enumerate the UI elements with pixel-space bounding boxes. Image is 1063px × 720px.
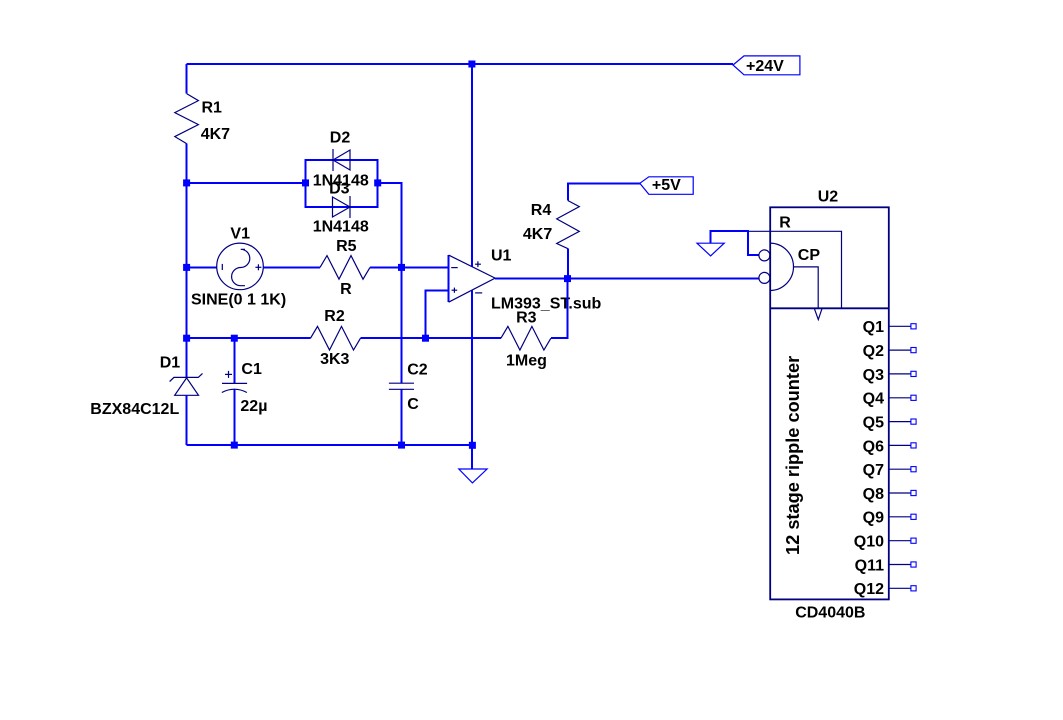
wire R2 to R3 — [361, 337, 501, 339]
pin Q2 stub — [889, 349, 911, 351]
resistor R3 — [501, 309, 551, 369]
svg-text:Q4: Q4 — [863, 391, 884, 408]
wire R5 to opamp minus input — [370, 266, 449, 268]
resistor R4 — [523, 201, 579, 249]
wire bottom row R2 line — [187, 337, 311, 339]
pin Q4 stub — [889, 397, 911, 399]
ground U2 reset — [697, 231, 759, 256]
svg-text:Q10: Q10 — [854, 534, 884, 551]
svg-text:D2: D2 — [330, 130, 351, 147]
pin Q7 stub — [889, 468, 911, 470]
flag +5V — [640, 177, 693, 195]
wire opamp V- to ground — [471, 290, 473, 445]
U2 R bubble — [759, 250, 770, 261]
pin Q12 terminal square — [911, 586, 916, 591]
svg-text:Q11: Q11 — [855, 557, 884, 574]
pin Q10 terminal square — [911, 538, 916, 543]
pin Q10 stub — [889, 540, 911, 542]
node junction top rail — [468, 61, 475, 68]
svg-text:C1: C1 — [241, 361, 262, 378]
svg-text:C2: C2 — [407, 361, 428, 378]
ground main — [459, 445, 487, 483]
wire R3 to output riser — [551, 279, 568, 339]
wire plus input — [426, 290, 449, 338]
node junction diode box left — [302, 179, 309, 186]
node junction inv input — [398, 264, 405, 271]
voltage source V1 — [191, 225, 286, 308]
svg-text:4K7: 4K7 — [523, 226, 552, 243]
svg-text:Q7: Q7 — [863, 462, 884, 479]
U2 CP edge arrow — [815, 309, 822, 320]
svg-text:R2: R2 — [324, 308, 345, 325]
svg-text:D1: D1 — [160, 355, 181, 372]
svg-text:R4: R4 — [531, 202, 552, 219]
pin Q9 terminal square — [911, 514, 916, 519]
node junction C1 bottom — [231, 442, 238, 449]
svg-text:V1: V1 — [230, 225, 250, 242]
wire diode box loop — [306, 160, 378, 207]
svg-text:1Meg: 1Meg — [506, 353, 547, 370]
wire V1 to R5 — [263, 266, 320, 268]
resistor R1 — [175, 94, 230, 144]
svg-text:+24V: +24V — [746, 58, 784, 75]
node junction left/V1 — [183, 264, 190, 271]
resistor R2 — [311, 308, 361, 368]
pin Q2 terminal square — [911, 348, 916, 353]
wire opamp output to U2 CP — [495, 278, 759, 280]
svg-text:SINE(0 1 1K): SINE(0 1 1K) — [191, 292, 286, 309]
node junction output/R4 — [564, 275, 571, 282]
U2 CP bubble — [759, 272, 770, 283]
node junction C1 top — [231, 335, 238, 342]
capacitor C1 — [222, 338, 268, 445]
wire to diode box — [187, 182, 306, 184]
pin Q6 stub — [889, 444, 911, 446]
wire +5V to R4 — [568, 183, 640, 200]
svg-text:Q12: Q12 — [854, 581, 884, 598]
wire V1 left lead — [187, 266, 217, 268]
U2 CP internal line — [794, 267, 819, 308]
svg-text:R: R — [340, 281, 352, 298]
pin Q6 terminal square — [911, 443, 916, 448]
node junction D1 top — [183, 335, 190, 342]
op-amp U1 — [449, 248, 602, 313]
pin Q12 stub — [889, 587, 911, 589]
svg-text:CD4040B: CD4040B — [795, 605, 865, 622]
U2 CP semicircle — [770, 243, 794, 290]
svg-text:12 stage ripple counter: 12 stage ripple counter — [783, 356, 803, 555]
wire bottom ground row — [187, 444, 472, 446]
svg-text:R: R — [779, 215, 791, 232]
svg-text:BZX84C12L: BZX84C12L — [90, 401, 179, 418]
wire R1 top lead — [186, 64, 188, 94]
svg-text:Q8: Q8 — [863, 486, 884, 503]
svg-text:Q6: Q6 — [863, 438, 884, 455]
capacitor C2 — [389, 361, 428, 445]
pin Q5 terminal square — [911, 419, 916, 424]
wire top +24V rail — [187, 63, 733, 65]
pin Q4 terminal square — [911, 395, 916, 400]
pin Q8 stub — [889, 492, 911, 494]
svg-text:R1: R1 — [202, 99, 223, 116]
svg-text:Q5: Q5 — [863, 415, 884, 432]
node junction left rail / diode box wire — [183, 179, 190, 186]
svg-text:Q1: Q1 — [863, 319, 884, 336]
pin Q3 stub — [889, 373, 911, 375]
wire diodebox to vertical — [378, 183, 402, 383]
U2 internal R line — [749, 231, 842, 308]
diode D2 — [313, 130, 369, 190]
node junction C2 bottom — [398, 442, 405, 449]
node junction diodebox right — [374, 179, 381, 186]
svg-text:1N4148: 1N4148 — [313, 218, 369, 235]
diode D3 — [313, 181, 369, 236]
zener diode D1 — [90, 338, 202, 445]
pin Q7 terminal square — [911, 467, 916, 472]
node junction plus riser — [422, 335, 429, 342]
wire R4 bottom lead — [567, 249, 569, 279]
svg-text:3K3: 3K3 — [320, 351, 349, 368]
svg-text:Q9: Q9 — [863, 510, 884, 527]
svg-text:Q2: Q2 — [863, 343, 884, 360]
wire main vertical +24 to opamp V+ — [471, 64, 473, 267]
pin Q8 terminal square — [911, 490, 916, 495]
svg-text:U2: U2 — [818, 189, 839, 206]
pin Q11 stub — [889, 564, 911, 566]
pin Q5 stub — [889, 421, 911, 423]
svg-text:4K7: 4K7 — [201, 126, 230, 143]
svg-text:+5V: +5V — [652, 177, 681, 194]
resistor R5 — [320, 238, 370, 298]
svg-text:CP: CP — [798, 247, 821, 264]
svg-text:C: C — [407, 396, 419, 413]
pin Q3 terminal square — [911, 371, 916, 376]
pin Q11 terminal square — [911, 562, 916, 567]
svg-text:D3: D3 — [329, 181, 350, 198]
IC U2 counter box — [770, 189, 889, 622]
svg-text:Q3: Q3 — [863, 367, 884, 384]
svg-text:22µ: 22µ — [240, 398, 267, 415]
pin Q9 stub — [889, 516, 911, 518]
svg-text:R3: R3 — [516, 309, 537, 326]
svg-text:R5: R5 — [336, 238, 357, 255]
pin Q1 terminal square — [911, 324, 916, 329]
svg-text:U1: U1 — [491, 248, 512, 265]
node junction ground — [469, 442, 476, 449]
flag +24V — [733, 56, 800, 75]
svg-text:LM393_ST.sub: LM393_ST.sub — [491, 295, 601, 312]
wire left vertical — [186, 144, 188, 339]
pin Q1 stub — [889, 325, 911, 327]
